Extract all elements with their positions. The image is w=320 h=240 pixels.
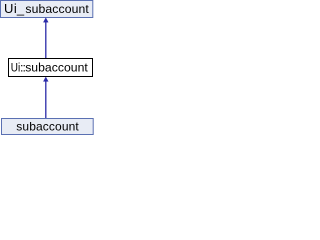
svg-text:Ui::subaccount: Ui::subaccount (11, 61, 89, 75)
svg-text:subaccount: subaccount (16, 120, 79, 134)
node Ui_subaccount (base class box) (1, 1, 93, 18)
svg-text:Ui_subaccount: Ui_subaccount (4, 1, 89, 16)
node Ui::subaccount (current class box) (9, 59, 93, 77)
inheritance arrow: subaccount to Ui::subaccount (43, 77, 48, 118)
inheritance arrow: Ui::subaccount to Ui_subaccount (43, 18, 48, 58)
node subaccount (derived class box) (2, 119, 94, 135)
